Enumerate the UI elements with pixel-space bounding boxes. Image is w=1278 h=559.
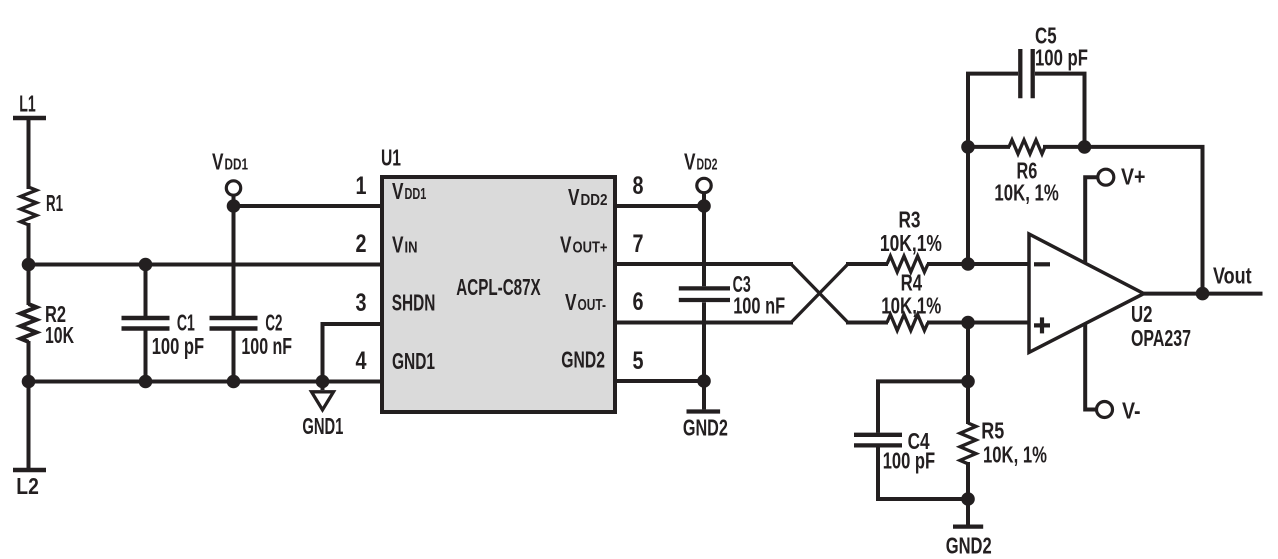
- label C1 value: [152, 309, 204, 359]
- resistor R1: [21, 187, 37, 225]
- svg-text:R3: R3: [899, 207, 921, 233]
- svg-text:GND2: GND2: [683, 415, 728, 441]
- svg-text:GND2: GND2: [946, 533, 992, 559]
- node inverting input junction: [961, 257, 975, 271]
- capacitor C4: [854, 381, 968, 499]
- svg-text:GND1: GND1: [392, 348, 435, 374]
- node C1 top junction: [139, 258, 153, 272]
- wire ground rail to pin 4: [29, 380, 383, 384]
- wire crossover diagonal 1: [791, 264, 848, 323]
- svg-text:IN: IN: [405, 240, 418, 257]
- label R6 value: [994, 158, 1058, 206]
- label C2 value: [241, 309, 292, 359]
- wire noninverting node down: [966, 323, 970, 425]
- node VDD1 junction: [227, 199, 241, 213]
- svg-text:Vout: Vout: [1213, 263, 1252, 289]
- ground GND2 (R5): [953, 499, 983, 527]
- svg-text:5: 5: [633, 347, 644, 375]
- svg-text:8: 8: [633, 172, 644, 200]
- svg-text:DD2: DD2: [697, 157, 718, 174]
- svg-text:10K,1%: 10K,1%: [880, 230, 942, 256]
- ground GND1: [312, 382, 334, 410]
- wire SHDN pin 3 to ground: [323, 324, 383, 382]
- wire R2 to L2: [27, 341, 31, 470]
- label VDD1: [212, 149, 248, 175]
- terminal L2: [13, 468, 46, 473]
- svg-text:U1: U1: [381, 145, 401, 171]
- capacitor C2: [210, 206, 258, 382]
- node noninverting input junction: [961, 316, 975, 330]
- resistor R3: [887, 256, 928, 272]
- capacitor C3: [679, 206, 730, 381]
- svg-text:100 pF: 100 pF: [1035, 45, 1088, 71]
- node bottom-left junction: [22, 375, 36, 389]
- node Vout junction: [1196, 287, 1210, 301]
- svg-text:V: V: [565, 289, 577, 315]
- svg-text:V: V: [568, 184, 580, 210]
- capacitor C1: [122, 265, 170, 382]
- wire R5 to ground: [966, 462, 970, 499]
- svg-text:2: 2: [356, 230, 367, 258]
- svg-text:U2: U2: [1131, 301, 1153, 327]
- svg-text:V: V: [392, 178, 404, 204]
- svg-text:10K: 10K: [45, 322, 74, 348]
- wire inverting node to feedback: [966, 147, 970, 264]
- svg-text:R5: R5: [981, 417, 1004, 443]
- wire input rail to pin 2: [29, 263, 383, 267]
- svg-text:7: 7: [633, 230, 644, 258]
- node feedback left junction: [961, 140, 975, 154]
- label R5 value: [981, 417, 1047, 467]
- svg-text:SHDN: SHDN: [392, 289, 436, 315]
- wire R1 to input node: [27, 223, 31, 266]
- node C1 bottom junction: [139, 375, 153, 389]
- capacitor C5: [968, 49, 1085, 147]
- resistor R6: [1009, 140, 1045, 154]
- wire to noninverting input: [968, 321, 1031, 325]
- svg-text:V+: V+: [1121, 164, 1146, 190]
- wire R6 left lead: [968, 145, 1010, 149]
- svg-text:GND1: GND1: [302, 413, 343, 439]
- pin name VDD1: [392, 178, 426, 204]
- svg-text:V-: V-: [1122, 398, 1141, 424]
- svg-text:L1: L1: [19, 90, 36, 116]
- svg-text:GND2: GND2: [561, 347, 605, 373]
- svg-text:DD1: DD1: [225, 157, 249, 174]
- svg-text:1: 1: [356, 172, 367, 200]
- svg-text:V: V: [560, 232, 572, 258]
- supply VDD1: [226, 181, 240, 208]
- label R2 value: [45, 301, 74, 348]
- label C4 value: [883, 428, 935, 474]
- svg-text:100 pF: 100 pF: [152, 333, 204, 359]
- svg-text:OUT+: OUT+: [573, 240, 608, 257]
- op-amp U2: [1029, 234, 1144, 352]
- svg-text:10K,1%: 10K,1%: [881, 293, 941, 319]
- svg-text:C2: C2: [265, 309, 282, 335]
- pin name VOUT-: [565, 289, 606, 315]
- svg-text:ACPL-C87X: ACPL-C87X: [456, 274, 541, 300]
- wire R6 right lead: [1043, 145, 1085, 149]
- label VDD2: [684, 149, 718, 175]
- resistor R5: [960, 423, 976, 464]
- svg-text:10K, 1%: 10K, 1%: [994, 180, 1058, 206]
- supply VDD2: [697, 178, 711, 206]
- label C3 value: [733, 271, 786, 318]
- wire crossover diagonal 2: [791, 264, 848, 323]
- svg-text:4: 4: [356, 347, 367, 375]
- ground GND2 (C3): [687, 381, 721, 412]
- pin name VIN: [392, 232, 418, 258]
- svg-text:3: 3: [356, 289, 367, 317]
- label C5 value: [1035, 23, 1088, 71]
- node feedback right junction: [1078, 140, 1092, 154]
- svg-text:100 nF: 100 nF: [241, 333, 292, 359]
- wire pin 7 VOUT+: [615, 262, 793, 266]
- terminal L1: [13, 118, 46, 189]
- supply V+: [1085, 169, 1114, 262]
- svg-text:10K, 1%: 10K, 1%: [983, 442, 1047, 468]
- svg-text:100 nF: 100 nF: [733, 292, 785, 318]
- wire to inverting input: [968, 262, 1031, 266]
- svg-text:6: 6: [633, 288, 644, 316]
- label U2 OPA237: [1131, 301, 1191, 351]
- supply V-: [1085, 324, 1112, 418]
- wire R3 left lead: [846, 262, 888, 266]
- wire VDD1 to pin 1: [234, 204, 383, 208]
- svg-text:V: V: [392, 232, 404, 258]
- op-amp U1 package ACPL-C87X: [382, 177, 615, 412]
- svg-text:DD2: DD2: [581, 192, 608, 209]
- wire pin 5 to GND2: [615, 379, 704, 383]
- node input junction: [22, 258, 36, 272]
- wire R4 right lead: [927, 321, 968, 325]
- label R4 value: [881, 270, 941, 319]
- wire pin 6 VOUT-: [615, 321, 793, 325]
- wire op-amp output: [1144, 292, 1263, 296]
- svg-text:V: V: [684, 149, 696, 175]
- wire pin 8 to VDD2: [615, 204, 704, 208]
- wire R3 right lead: [927, 262, 968, 266]
- op-amp minus input symbol: [1034, 262, 1050, 266]
- pin name VOUT+: [560, 232, 608, 258]
- svg-text:L2: L2: [16, 473, 39, 499]
- node GND1 junction: [316, 375, 330, 389]
- node R5 bottom junction: [961, 492, 975, 506]
- node C2 bottom junction: [227, 375, 241, 389]
- resistor R4: [887, 315, 928, 331]
- svg-text:100 pF: 100 pF: [883, 448, 935, 474]
- wire R4 left lead: [846, 321, 888, 325]
- node pin5 junction: [697, 374, 711, 388]
- svg-text:OUT-: OUT-: [578, 297, 607, 314]
- op-amp plus input symbol: [1034, 317, 1050, 333]
- wire R2 top: [27, 265, 31, 306]
- svg-text:V: V: [212, 149, 224, 175]
- node VDD2 junction: [697, 199, 711, 213]
- svg-text:C1: C1: [177, 309, 195, 335]
- wire feedback to output node: [1085, 147, 1203, 294]
- pin name VDD2: [568, 184, 608, 210]
- svg-text:OPA237: OPA237: [1131, 325, 1191, 351]
- svg-text:R1: R1: [46, 190, 63, 216]
- label R3 value: [880, 207, 942, 256]
- node C4 top junction: [961, 375, 975, 389]
- resistor R2: [21, 304, 37, 342]
- svg-text:DD1: DD1: [405, 186, 427, 203]
